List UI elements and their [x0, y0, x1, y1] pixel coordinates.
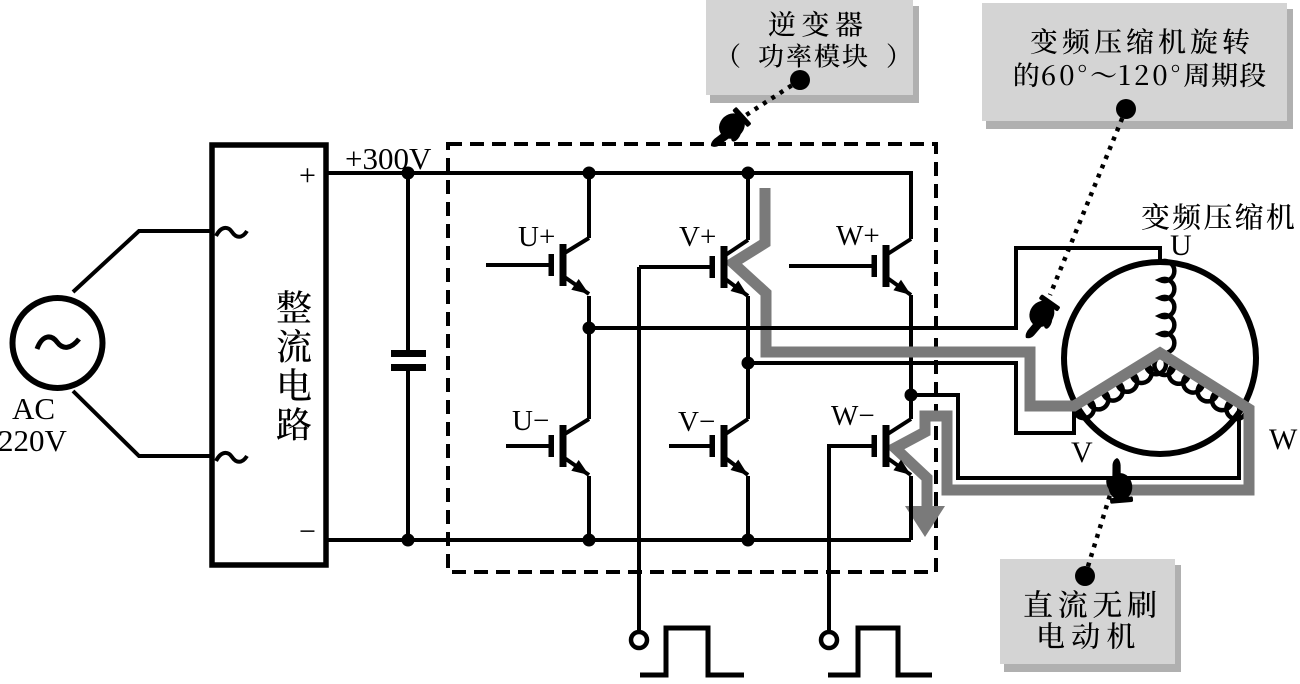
svg-text:U+: U+	[518, 221, 555, 253]
svg-text:W+: W+	[836, 220, 880, 252]
svg-text:U: U	[1170, 229, 1192, 262]
svg-text:U−: U−	[512, 405, 549, 437]
svg-text:+: +	[299, 159, 316, 192]
svg-text:−: −	[299, 515, 316, 548]
svg-text:V+: V+	[679, 221, 716, 253]
svg-text:W: W	[1269, 423, 1298, 456]
svg-text:AC: AC	[12, 391, 55, 426]
svg-text:V: V	[1071, 436, 1093, 469]
svg-text:220V: 220V	[0, 423, 68, 458]
svg-text:+300V: +300V	[345, 141, 432, 176]
svg-text:V−: V−	[678, 406, 715, 438]
svg-text:W−: W−	[831, 400, 875, 432]
